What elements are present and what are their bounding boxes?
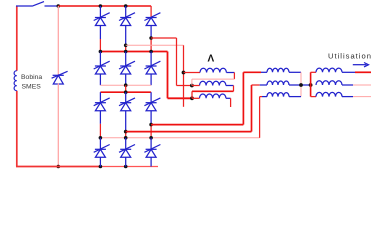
wire B2 feed vertical bold (251, 85, 253, 132)
wire col2 mid red (125, 45, 127, 51)
node tap C c1 (99, 50, 103, 54)
inductor A3 (delta winding phase 3) (200, 94, 226, 98)
svg-text:Utilisation: Utilisation (328, 52, 371, 61)
node tap3 c2 (124, 136, 128, 140)
node tap2 c2 (124, 130, 128, 134)
wire A1 lead (184, 72, 201, 74)
wire bypass vertical upper (57, 6, 59, 75)
wire col3 bridge2 mid blue (150, 111, 152, 125)
wire B2 lead blue (260, 84, 267, 86)
wire col2 bridge2 top stub (125, 92, 127, 103)
node junction bottom rail c1 (99, 165, 103, 169)
node B star (299, 83, 303, 87)
wire feed F3 vertical with dangler (183, 45, 185, 107)
wire C2 output pink (353, 84, 371, 86)
wire col3 to lower rail (150, 74, 152, 85)
node junction bottom rail c2 (124, 165, 128, 169)
wire delta link2 horizontal bold (192, 90, 234, 92)
wire bypass vertical lower (57, 83, 59, 166)
thyristor T3 (bridge1 top row col2) (119, 13, 135, 26)
wire C star vertical bold (310, 72, 312, 96)
thyristor T4 (bridge1 bottom row col2) (119, 61, 135, 74)
svg-text:SMES: SMES (22, 84, 42, 91)
wire col2 bridge2 mid red (125, 132, 127, 138)
wire bottom rail right (100, 166, 158, 168)
wire top-left (to switch) (16, 5, 32, 7)
wire col1 mid blue (99, 26, 101, 40)
wire left vertical (SMES loop left side, upper part) (16, 6, 18, 71)
wire col1 bridge2 top stub (99, 92, 101, 103)
wire left vertical (SMES loop left side, lower part) (16, 91, 18, 167)
node tap2 c3 (149, 123, 153, 127)
inductor C3 (output winding phase 3) (316, 92, 342, 96)
wire col2 bridge2 mid blue (125, 111, 127, 132)
node phase tap c3 (149, 36, 153, 40)
wire col3 to T12 (150, 138, 152, 150)
wire B star vertical (300, 72, 302, 96)
wire col1 to T8 (99, 138, 101, 150)
wire delta link1 down (233, 73, 235, 80)
thyristor T1 (bridge1 top row col1) (94, 13, 110, 26)
wire col2 to lower rail (125, 74, 127, 85)
node junction top bypass (57, 4, 61, 8)
wire switch to node (45, 5, 59, 7)
wire col2 mid blue (125, 26, 127, 46)
inductor A2 (delta winding phase 2) (200, 81, 226, 85)
thyristor T6 (bridge1 bottom row col3) (144, 61, 160, 74)
switch S1 blade (32, 2, 44, 7)
thyristor T2 (bridge1 bottom row col1) (94, 61, 110, 74)
wire B3 lead blue (262, 96, 267, 98)
wire C2 end blue (342, 84, 353, 86)
wire phase tap C bold (y=51.5) (100, 51, 167, 53)
wire col1 bottom stub (99, 157, 101, 166)
wire col2 lower blue (to T4) (125, 52, 127, 67)
wire col1 lower blue (to T2) (99, 52, 101, 67)
wire delta link2 to A3 start (191, 91, 193, 98)
wire C3 lead (311, 96, 316, 98)
node C star (309, 83, 313, 87)
node tap3 c1 (99, 136, 103, 140)
wire col3 top stub (150, 6, 152, 18)
wire bridge2 phase tap (y=131.6) (126, 131, 252, 133)
wire C1 lead (311, 71, 316, 73)
node tap3 c3 (149, 136, 153, 140)
wire col3 mid blue (150, 26, 152, 39)
node delta A2 start (190, 84, 194, 88)
wire A1 end blue (226, 72, 234, 74)
thyristor T13 bypass (52, 71, 68, 84)
wire B2 feed horizontal (252, 84, 260, 86)
node delta A3 start (190, 96, 194, 100)
arrow output direction (353, 63, 369, 67)
node junction top rail c1 (99, 4, 103, 8)
wire B1 end blue (289, 71, 301, 73)
node tap C c3 (149, 50, 153, 54)
wire B3 feed horizontal (260, 96, 262, 98)
wire col3 bridge2 mid red (150, 125, 152, 138)
wire col1 top stub (99, 6, 101, 18)
wire delta link1 to A2 start (191, 79, 193, 85)
wire B1 feed vertical bold (242, 72, 244, 124)
svg-text:Bobina: Bobina (21, 74, 42, 81)
wire feed F2 horizontal (177, 85, 192, 87)
node rail2 c2 (124, 90, 128, 94)
wire feed F1 vertical bold (167, 52, 169, 99)
node rail1 c2 (124, 83, 128, 87)
wire col3 lower blue (to T6) (150, 52, 152, 67)
node tap C c2 (124, 50, 128, 54)
wire col2 bottom stub (125, 157, 127, 166)
wire col3 mid red (150, 38, 152, 52)
wire C3 end blue (342, 96, 353, 98)
inductor Bobina SMES coil (14, 71, 17, 91)
wire col2 top stub (125, 6, 127, 18)
wire delta link2 down (233, 86, 235, 92)
thyristor T5 (bridge1 top row col3) (144, 13, 160, 26)
wire B1 feed horizontal bold (243, 71, 261, 73)
thyristor T8 (bridge2 bottom row col1) (94, 145, 110, 158)
wire phase tap A (y=38) (151, 37, 176, 39)
wire phase tap B (y=45.3) (126, 44, 184, 46)
inductor B3 (wye winding phase 3) (267, 93, 289, 97)
thyristor T11 (bridge2 top row col3) (144, 98, 160, 111)
wire C1 end blue (342, 71, 355, 73)
wire A2 end blue (226, 85, 234, 87)
wire B3 feed vertical (259, 97, 261, 138)
node junction top rail c2 (124, 4, 128, 8)
wire C1 output bold (355, 71, 371, 73)
wire top rail (DC+ rail) (58, 5, 151, 7)
wire DC link c2 (125, 85, 127, 92)
wire bridge2 phase tap (y=124.6) (151, 124, 243, 126)
wire col3 bridge2 top stub (150, 92, 152, 103)
thyristor T9 (bridge2 top row col2) (119, 98, 135, 111)
inductor C2 (output winding phase 2) (316, 81, 342, 85)
node delta A1 start (182, 71, 186, 75)
wire delta link1 horizontal pink (192, 78, 235, 80)
node phase tap c2 (124, 44, 128, 48)
wire A3 lead (192, 97, 200, 99)
inductor A1 (delta winding phase 1) (200, 68, 226, 72)
svg-text:Λ: Λ (208, 54, 215, 65)
wire col1 mid red (99, 39, 101, 52)
inductor B2 (wye winding phase 2) (267, 81, 289, 85)
wire C3 output pink (353, 96, 371, 98)
wire A3 end stub down (230, 98, 232, 107)
wire col1 bridge2 mid red (99, 124, 101, 138)
thyristor T7 (bridge2 top row col1) (94, 98, 110, 111)
wire A3 end blue (226, 97, 231, 99)
wire col2 to T10 (125, 138, 127, 150)
wire bridge2 phase tap pink (y=137.8) (100, 137, 259, 139)
wire bottom rail left (16, 166, 100, 168)
wire col3 bottom stub (150, 157, 152, 166)
wire B1 lead blue (261, 71, 267, 73)
wire feed F1 horizontal bold (168, 97, 193, 99)
wire bridge1 negative rail (y=85.2) (100, 84, 151, 86)
node junction bottom bypass (57, 165, 61, 169)
wire B2 end blue (289, 84, 311, 86)
wire A2 lead (192, 85, 200, 87)
wire col1 bridge2 mid blue (99, 111, 101, 124)
wire B3 end blue (289, 96, 301, 98)
inductor B1 (wye winding phase 1) (267, 68, 289, 72)
thyristor T12 (bridge2 bottom row col3) (144, 145, 160, 158)
wire feed F2 vertical (176, 38, 178, 86)
inductor C1 (output winding phase 1) (316, 68, 342, 72)
thyristor T10 (bridge2 bottom row col2) (119, 145, 135, 158)
wire bridge2 positive rail (y=92.2) (100, 91, 151, 93)
wire col1 to lower rail (99, 74, 101, 85)
